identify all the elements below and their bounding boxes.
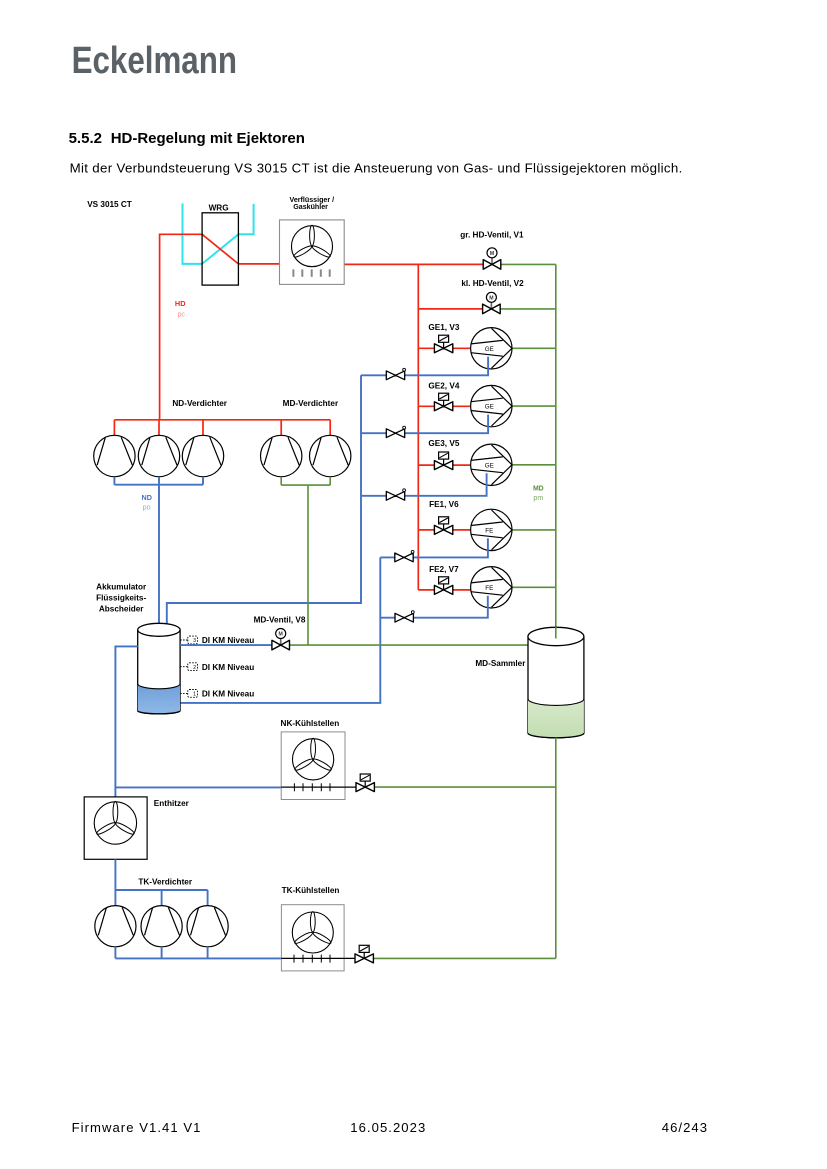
evaporator TK-Kuehlstellen — [281, 905, 356, 971]
valve GE2, V4 (solenoid) — [434, 393, 452, 411]
compressor MD1 — [261, 435, 302, 476]
wire red bus to valve GE2 — [418, 405, 434, 407]
wire red bus to valve GE1 — [418, 347, 434, 349]
ejector FE2 — [471, 567, 512, 608]
svg-text:MD: MD — [533, 486, 544, 493]
svg-text:2: 2 — [193, 665, 196, 671]
svg-text:HD-Regelung mit Ejektoren: HD-Regelung mit Ejektoren — [111, 130, 305, 147]
ejector GE2 — [471, 385, 512, 426]
svg-text:5.5.2: 5.5.2 — [69, 130, 102, 147]
valve suction GE1 (hand) — [386, 368, 405, 379]
wire green ejector FE2 to bus — [512, 586, 556, 588]
wire blue Enthitzer to TK manifold — [115, 859, 207, 890]
wire red WRG to condenser — [238, 263, 279, 265]
wire blue TK discharge manifold — [115, 947, 281, 959]
ejector FE1 — [471, 509, 512, 550]
condenser Verfluessiger/Gaskuehler — [280, 220, 345, 285]
svg-text:TK-Verdichter: TK-Verdichter — [138, 878, 192, 887]
svg-text:WRG: WRG — [209, 204, 229, 213]
compressor ND2 — [138, 435, 179, 476]
wire red drop x=159.0 — [158, 420, 160, 436]
svg-text:FE2, V7: FE2, V7 — [429, 565, 459, 574]
valve suction GE2 (hand) — [386, 426, 405, 437]
wire green ejector GE2 to bus — [512, 405, 556, 407]
svg-text:GE: GE — [485, 404, 494, 411]
svg-text:po: po — [143, 504, 151, 511]
svg-text:Mit der Verbundsteuerung VS 30: Mit der Verbundsteuerung VS 3015 CT ist … — [70, 161, 683, 176]
valve GE1, V3 (solenoid) — [434, 335, 452, 353]
wire green V8 to MD-Sammler — [289, 644, 528, 646]
svg-text:3: 3 — [193, 638, 196, 644]
wire red condenser to valve V1 — [344, 263, 483, 265]
svg-text:TK-Kühlstellen: TK-Kühlstellen — [282, 886, 340, 895]
wire blue bus FE (to accumulator side) — [180, 557, 380, 703]
valve V1 (motor) — [483, 248, 501, 269]
wire blue accumulator outlet to Enthitzer — [115, 646, 137, 797]
sensor DI KM Niveau 2 — [180, 663, 254, 672]
svg-text:MD-Verdichter: MD-Verdichter — [283, 399, 339, 408]
wire red drop x=203.0 — [202, 420, 204, 436]
wire green MD discharge manifold — [281, 477, 330, 485]
wire red valve to ejector FE1 — [453, 529, 471, 531]
wire red inside WRG (cross) — [202, 234, 238, 264]
svg-text:MD-Ventil, V8: MD-Ventil, V8 — [254, 616, 306, 625]
svg-text:GE1, V3: GE1, V3 — [428, 323, 459, 332]
compressor ND1 — [94, 435, 135, 476]
wire blue suction GE3 — [361, 473, 487, 496]
svg-text:M: M — [279, 632, 283, 638]
svg-text:VS 3015 CT: VS 3015 CT — [87, 200, 132, 209]
wire red bus to valve FE2 — [418, 589, 434, 591]
desuperheater Enthitzer — [84, 797, 147, 859]
vessel accumulator — [138, 623, 180, 714]
wire red drop x=330.2 — [329, 420, 331, 436]
sensor DI KM Niveau 3 — [180, 636, 254, 645]
svg-text:NK-Kühlstellen: NK-Kühlstellen — [281, 719, 340, 728]
wire red drop x=114.4 — [113, 420, 115, 436]
svg-text:Firmware V1.41 V1: Firmware V1.41 V1 — [72, 1120, 202, 1135]
wire blue accumulator to V8 — [180, 644, 272, 646]
wire red bus to valve GE3 — [418, 464, 434, 466]
wire red valve to ejector GE1 — [453, 347, 471, 349]
compressor MD2 — [310, 435, 351, 476]
wire green MD-Sammler bottom outlet — [555, 738, 557, 959]
wire cyan WRG inlet (vertical left) — [183, 203, 203, 264]
svg-text:Flüssigkeits-: Flüssigkeits- — [96, 594, 146, 603]
svg-text:Akkumulator: Akkumulator — [96, 582, 147, 591]
wire blue suction GE1 — [361, 357, 488, 376]
ejector GE1 — [471, 328, 512, 369]
svg-text:GE: GE — [485, 346, 494, 353]
wire red HD bus vertical — [417, 264, 419, 590]
wire red valve to ejector FE2 — [453, 589, 471, 591]
wire blue bus GE (to accumulator top) — [167, 375, 361, 636]
wire red discharge manifold — [114, 419, 330, 421]
wire cyan inside WRG (cross) — [202, 234, 238, 264]
svg-text:FE1, V6: FE1, V6 — [429, 500, 459, 509]
valve V2 (motor) — [483, 292, 501, 313]
valve TK (solenoid) — [355, 945, 373, 963]
svg-text:Abscheider: Abscheider — [99, 604, 144, 613]
svg-text:16.05.2023: 16.05.2023 — [350, 1120, 426, 1135]
evaporator NK-Kuehlstellen — [281, 732, 357, 800]
wire red valve to ejector GE3 — [453, 464, 471, 466]
svg-text:FE: FE — [485, 585, 493, 592]
svg-text:HD: HD — [175, 299, 186, 308]
wire red drop x=281.2 — [280, 420, 282, 436]
wire blue TK drop x=115.4 — [114, 890, 116, 906]
svg-text:ND-Verdichter: ND-Verdichter — [172, 399, 227, 408]
valve suction FE2 (hand) — [395, 611, 414, 622]
svg-text:1: 1 — [193, 692, 196, 698]
valve FE1, V6 (solenoid) — [434, 517, 452, 535]
wire red bus to V2 — [418, 308, 483, 310]
wire green MD bus vertical — [555, 264, 557, 627]
compressor TK3 — [187, 906, 228, 947]
compressor ND3 — [182, 435, 223, 476]
wire blue TK drop x=207.6 — [207, 890, 209, 906]
svg-text:Eckelmann: Eckelmann — [72, 39, 237, 82]
svg-text:DI KM Niveau: DI KM Niveau — [202, 636, 254, 645]
wire green NK return — [373, 786, 555, 788]
wire blue suction FE1 — [380, 538, 488, 557]
valve V8 (motor) — [272, 629, 290, 650]
wire green ejector GE3 to bus — [512, 464, 556, 466]
svg-text:DI KM Niveau: DI KM Niveau — [202, 690, 254, 699]
svg-text:M: M — [489, 295, 493, 301]
section title 5.5.2 — [69, 130, 305, 147]
wire blue suction FE2 — [380, 596, 488, 618]
vessel MD-Sammler — [528, 627, 584, 738]
svg-text:GE: GE — [485, 462, 494, 469]
sensor DI KM Niveau 1 — [180, 690, 254, 699]
svg-text:kl. HD-Ventil, V2: kl. HD-Ventil, V2 — [461, 279, 524, 288]
svg-text:pm: pm — [533, 495, 543, 502]
valve FE2, V7 (solenoid) — [434, 577, 452, 595]
wire blue ND suction manifold — [114, 477, 203, 485]
svg-text:ND: ND — [142, 493, 152, 502]
wire green bus into MD-Sammler — [555, 627, 557, 639]
heat exchanger WRG — [202, 213, 238, 285]
svg-text:DI KM Niveau: DI KM Niveau — [202, 663, 254, 672]
svg-text:FE: FE — [485, 528, 493, 535]
wire blue suction GE2 — [361, 415, 488, 434]
valve suction FE1 (hand) — [395, 550, 414, 561]
svg-text:GE3, V5: GE3, V5 — [428, 439, 459, 448]
wire green V2 to bus — [500, 308, 556, 310]
valve NK (solenoid) — [356, 774, 374, 792]
wire green V1 to bus — [500, 263, 555, 265]
svg-text:Enthitzer: Enthitzer — [154, 799, 190, 808]
wire green TK return — [372, 957, 555, 959]
svg-text:pc: pc — [177, 312, 185, 319]
svg-text:gr. HD-Ventil, V1: gr. HD-Ventil, V1 — [460, 231, 524, 240]
svg-text:GE2, V4: GE2, V4 — [428, 382, 459, 391]
wire blue TK drop x=161.6 — [161, 890, 163, 906]
wire green ejector FE1 to bus — [512, 529, 556, 531]
wire red bus to valve FE1 — [418, 529, 434, 531]
svg-text:46/243: 46/243 — [662, 1120, 708, 1135]
wire green MD drop to V8 line — [307, 485, 309, 645]
wire blue NK feed — [115, 786, 281, 788]
svg-text:MD-Sammler: MD-Sammler — [475, 659, 526, 668]
compressor TK2 — [141, 906, 182, 947]
svg-text:Gaskühler: Gaskühler — [293, 203, 328, 211]
wire green ejector GE1 to bus — [512, 347, 556, 349]
wire cyan WRG outlet (to top right) — [238, 204, 253, 234]
ejector GE3 — [471, 444, 512, 485]
valve suction GE3 (hand) — [386, 489, 405, 500]
wire red valve to ejector GE2 — [453, 405, 471, 407]
compressor TK1 — [95, 906, 136, 947]
wire blue ND suction drop to accumulator — [158, 485, 160, 637]
valve GE3, V5 (solenoid) — [434, 452, 452, 470]
wire red HD left riser — [160, 234, 203, 419]
svg-text:M: M — [490, 251, 494, 257]
